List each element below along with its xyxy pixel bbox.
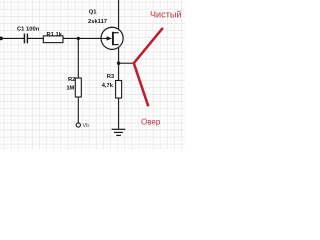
svg-text:4,7k: 4,7k (102, 83, 114, 89)
svg-text:R2: R2 (68, 77, 75, 83)
svg-text:Vb: Vb (83, 123, 89, 129)
svg-text:1M: 1M (66, 85, 74, 91)
svg-text:R1 1k: R1 1k (47, 32, 63, 38)
svg-text:Овер: Овер (141, 117, 161, 126)
svg-text:C1 100n: C1 100n (17, 26, 40, 32)
svg-text:Q1: Q1 (89, 9, 98, 15)
svg-text:2sk117: 2sk117 (88, 19, 107, 25)
svg-text:Чистый: Чистый (150, 10, 181, 20)
svg-text:R3: R3 (107, 74, 115, 80)
